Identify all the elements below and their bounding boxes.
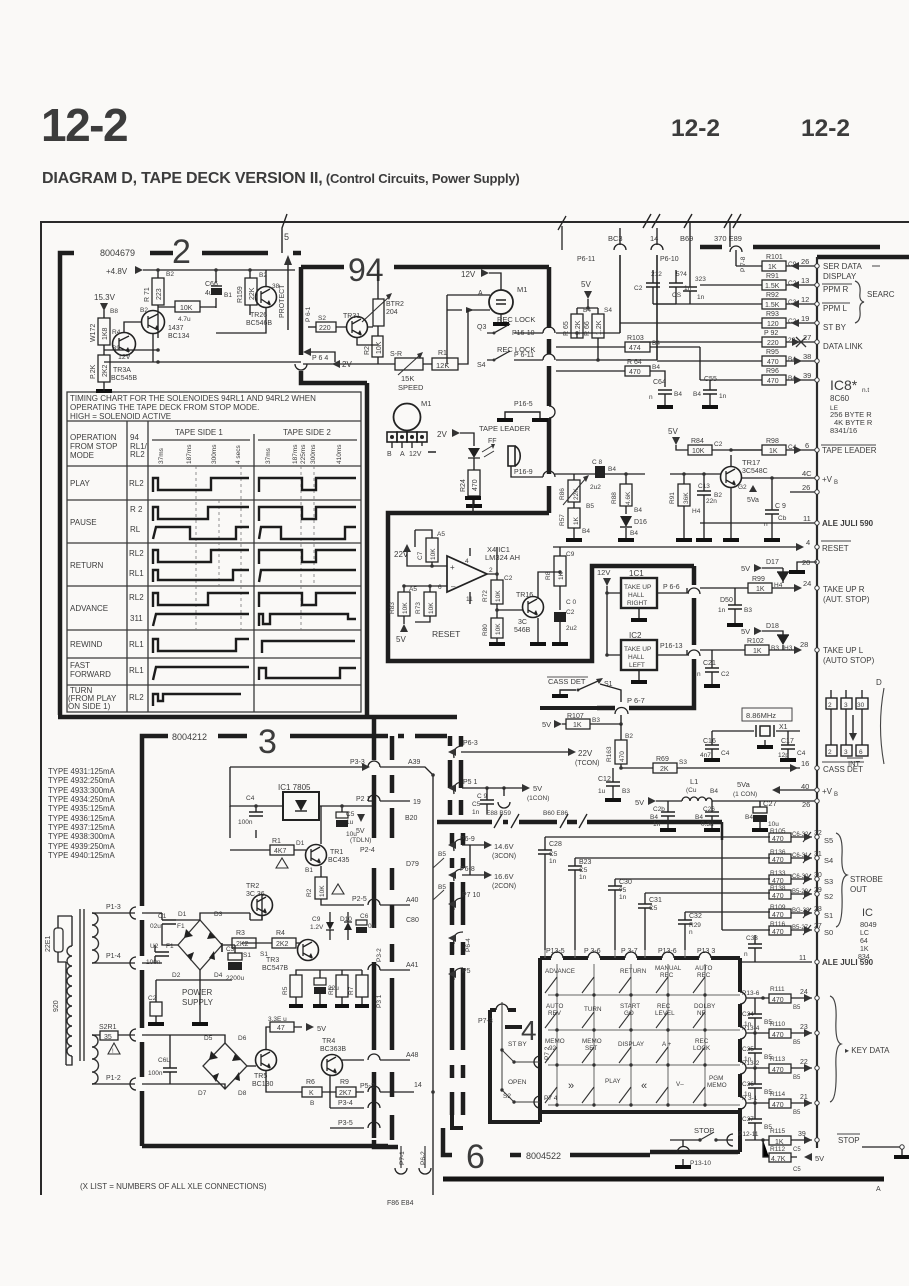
svg-text:FAST: FAST — [70, 661, 90, 670]
svg-text:MEMO: MEMO — [545, 1038, 565, 1045]
svg-text:P13-10: P13-10 — [690, 1160, 711, 1167]
key labels row0 — [545, 965, 727, 1089]
svg-text:410ms: 410ms — [336, 444, 343, 464]
svg-text:16.6V: 16.6V — [494, 872, 514, 881]
ground above op-amp — [472, 500, 474, 513]
svg-text:ALE JULI 590: ALE JULI 590 — [822, 958, 874, 967]
svg-text:1437: 1437 — [168, 325, 184, 332]
svg-text:S1: S1 — [824, 911, 833, 920]
svg-text:S4: S4 — [824, 856, 833, 865]
svg-text:TYPE 4934:250mA: TYPE 4934:250mA — [48, 795, 116, 804]
svg-text:D3: D3 — [214, 911, 223, 918]
svg-text:R116: R116 — [770, 921, 785, 928]
bus pair B (thick dashed verticals) — [450, 736, 463, 1128]
svg-text:TYPE 4932:250mA: TYPE 4932:250mA — [48, 776, 116, 785]
svg-text:P7-1: P7-1 — [399, 1151, 406, 1165]
svg-text:B4: B4 — [630, 530, 638, 537]
svg-text:2: 2 — [172, 233, 191, 271]
slashes across strobe arrows — [803, 832, 811, 935]
svg-text:B3: B3 — [592, 717, 600, 724]
svg-text:R103: R103 — [627, 335, 644, 342]
svg-text:S5: S5 — [824, 836, 833, 845]
svg-text:8004212: 8004212 — [172, 732, 207, 742]
waveform FAST FORWARD side1 — [153, 667, 249, 680]
5V TDLN down arrow — [357, 814, 365, 822]
svg-text:6: 6 — [859, 749, 863, 756]
svg-text:PPM R: PPM R — [823, 285, 849, 294]
svg-text:11: 11 — [799, 955, 806, 962]
svg-text:1K: 1K — [775, 1139, 784, 1146]
svg-text:C66: C66 — [205, 281, 218, 288]
arcs on matrix top — [551, 952, 711, 958]
svg-text:TYPE 4936:125mA: TYPE 4936:125mA — [48, 814, 116, 823]
connector wires — [831, 690, 862, 745]
svg-text:39: 39 — [798, 1131, 806, 1138]
svg-text:B20: B20 — [405, 815, 418, 822]
svg-text:IC1 7805: IC1 7805 — [278, 783, 311, 792]
svg-text:TR1: TR1 — [330, 849, 343, 856]
svg-text:R91: R91 — [766, 273, 779, 280]
svg-text:TAKE UP L: TAKE UP L — [823, 646, 864, 655]
ground below R57 — [566, 538, 582, 542]
svg-text:PAUSE: PAUSE — [70, 518, 97, 527]
waveform FAST FORWARD side2 — [259, 668, 356, 680]
svg-text:B4: B4 — [634, 507, 642, 514]
svg-text:A5: A5 — [409, 586, 417, 593]
svg-text:3: 3 — [844, 749, 848, 756]
waveform PAUSE RL1 side1 — [153, 527, 249, 539]
waveform ADVANCE RL2 side1 — [153, 593, 249, 607]
svg-text:470: 470 — [772, 836, 784, 843]
svg-text:12: 12 — [801, 295, 809, 304]
ground below TR16 — [530, 642, 546, 646]
svg-text:P3-4: P3-4 — [338, 1100, 353, 1107]
svg-text:B4: B4 — [695, 814, 703, 821]
svg-text:W172: W172 — [90, 324, 97, 342]
svg-text:RETURN: RETURN — [620, 968, 647, 975]
svg-text:R24: R24 — [460, 479, 467, 492]
resistor R102 1K — [745, 645, 769, 655]
table header text — [70, 394, 331, 460]
svg-text:(AUT. STOP): (AUT. STOP) — [823, 595, 870, 604]
svg-text:C5: C5 — [649, 905, 658, 912]
svg-text:2V: 2V — [437, 430, 447, 439]
svg-text:2V: 2V — [342, 360, 352, 369]
svg-text:37ms: 37ms — [265, 447, 272, 464]
svg-text:1K: 1K — [769, 448, 778, 455]
svg-text:12V: 12V — [461, 270, 476, 279]
thick top bars right section — [700, 247, 909, 257]
svg-text:2u2: 2u2 — [590, 484, 601, 491]
svg-text:S3: S3 — [824, 877, 833, 886]
svg-text:P7 10: P7 10 — [462, 892, 480, 899]
matrix column wires — [545, 950, 705, 1105]
svg-text:1u: 1u — [598, 788, 606, 795]
electrolytic C9 22u — [314, 978, 326, 985]
resistor R9 2K7 — [336, 1087, 356, 1097]
svg-text:S2: S2 — [503, 1093, 511, 1100]
svg-text:ALE JULI 590: ALE JULI 590 — [822, 519, 874, 528]
svg-text:TYPE 4933:300mA: TYPE 4933:300mA — [48, 786, 116, 795]
resistor 10K horizontal — [175, 301, 200, 312]
svg-text:R138: R138 — [770, 885, 786, 892]
RESET wire to bus — [553, 546, 802, 548]
svg-text:IC2: IC2 — [629, 631, 642, 640]
svg-text:R29: R29 — [689, 922, 701, 929]
svg-text:n: n — [764, 521, 768, 528]
svg-text:1n: 1n — [653, 821, 661, 828]
svg-text:HALL: HALL — [628, 654, 645, 661]
svg-text:TR3: TR3 — [266, 957, 279, 964]
svg-text:TAPE LEADER: TAPE LEADER — [822, 446, 877, 455]
svg-text:470: 470 — [772, 1102, 784, 1109]
svg-text:5?4: 5?4 — [676, 271, 687, 278]
svg-text:220: 220 — [319, 325, 331, 332]
arc crossings on section94 left edge — [295, 364, 307, 370]
resistor R71 — [152, 278, 164, 305]
svg-text:13: 13 — [801, 276, 809, 285]
svg-text:PGM: PGM — [709, 1075, 723, 1082]
section 2 border (thick) — [58, 253, 457, 717]
svg-text:TR26: TR26 — [250, 312, 267, 319]
svg-text:8341/16: 8341/16 — [830, 426, 857, 435]
svg-text:H3: H3 — [784, 645, 793, 652]
svg-text:300ms: 300ms — [310, 444, 317, 464]
svg-text:S2: S2 — [318, 315, 326, 322]
svg-text:19: 19 — [413, 799, 421, 806]
resistor R3 2K2 — [232, 938, 256, 948]
waveform PLAY RL2 side2 — [259, 478, 356, 492]
svg-text:P6-4: P6-4 — [465, 938, 472, 952]
svg-text:B1: B1 — [305, 867, 313, 874]
bus pair A (thick dashed verticals) — [374, 717, 398, 1147]
svg-text:R 71: R 71 — [144, 287, 151, 302]
svg-text:(1 CON): (1 CON) — [733, 791, 757, 798]
svg-text:(2CON): (2CON) — [492, 883, 516, 890]
resistor R66 — [592, 314, 604, 338]
svg-text:6: 6 — [438, 584, 442, 591]
svg-text:C3: C3 — [226, 946, 235, 953]
svg-text:STOP: STOP — [838, 1136, 860, 1145]
svg-text:R57: R57 — [559, 514, 566, 526]
svg-text:470: 470 — [772, 857, 784, 864]
P2-5 / A40 row — [321, 899, 410, 905]
svg-text:C 8: C 8 — [592, 459, 603, 466]
svg-text:1C1: 1C1 — [629, 569, 644, 578]
section 3 border (thick) — [142, 736, 447, 1146]
svg-text:15K: 15K — [401, 374, 414, 383]
svg-text:R6: R6 — [328, 986, 335, 995]
svg-text:S2R1: S2R1 — [99, 1024, 117, 1031]
svg-text:D8: D8 — [238, 1090, 247, 1097]
svg-text:120: 120 — [767, 321, 779, 328]
svg-text:470: 470 — [772, 878, 784, 885]
wires bridge to TR3 row — [200, 894, 300, 980]
svg-text:10K: 10K — [430, 548, 437, 560]
svg-text:R 66: R 66 — [584, 321, 591, 336]
svg-text:187ms: 187ms — [186, 444, 193, 464]
P3-4 P3-5 rows — [330, 1075, 364, 1128]
tape leader signal wire to TR17 — [555, 450, 817, 538]
ground below motor M1 — [500, 314, 502, 323]
svg-text:4C: 4C — [802, 469, 812, 478]
svg-text:P 6 4: P 6 4 — [312, 355, 328, 362]
svg-text:100n: 100n — [238, 819, 253, 826]
svg-text:D50: D50 — [720, 597, 733, 604]
svg-text:R1: R1 — [272, 838, 281, 845]
svg-text:F1: F1 — [166, 943, 174, 950]
ground below C13 — [696, 538, 712, 542]
crystal X1 8.86MHz — [742, 708, 792, 721]
svg-text:BC545B: BC545B — [111, 375, 137, 382]
motor M1 (upper) — [489, 290, 513, 314]
svg-text:DOLBY: DOLBY — [694, 1003, 716, 1010]
R103 474 box — [556, 347, 700, 380]
svg-text:MEMO: MEMO — [582, 1038, 602, 1045]
svg-text:P 6-1: P 6-1 — [305, 306, 312, 322]
svg-text:A40: A40 — [406, 897, 419, 904]
svg-text:C32: C32 — [689, 913, 702, 920]
waveform TURN side1 — [153, 694, 241, 706]
svg-text:R9: R9 — [340, 1079, 349, 1086]
svg-text:R136: R136 — [770, 849, 786, 856]
svg-text:D1: D1 — [178, 911, 187, 918]
svg-text:B4: B4 — [710, 788, 718, 795]
svg-text:P6-11: P6-11 — [577, 256, 595, 263]
svg-text:R 64: R 64 — [627, 359, 642, 366]
svg-text:1.5K: 1.5K — [765, 302, 780, 309]
svg-text:5V: 5V — [815, 1154, 824, 1163]
svg-text:C33: C33 — [746, 935, 758, 942]
svg-text:RL: RL — [130, 525, 141, 534]
svg-text:D79: D79 — [406, 861, 419, 868]
wire +4.8V rail — [104, 270, 301, 388]
svg-text:R163: R163 — [606, 746, 613, 762]
transistor TR27 — [142, 311, 165, 334]
svg-text:BC363B: BC363B — [320, 1046, 346, 1053]
svg-text:D18: D18 — [766, 623, 779, 630]
svg-text:R110: R110 — [770, 1021, 785, 1028]
key switches row1 — [545, 977, 705, 1103]
svg-text:100n: 100n — [148, 1070, 163, 1077]
svg-text:26: 26 — [801, 257, 809, 266]
svg-text:10K: 10K — [402, 602, 409, 614]
svg-text:–: – — [451, 582, 456, 591]
svg-text:R98: R98 — [766, 438, 779, 445]
svg-text:REV: REV — [548, 1010, 562, 1017]
section 6 boundary with numeral and code — [443, 1128, 738, 1155]
svg-text:C13: C13 — [698, 483, 710, 490]
svg-text:B: B — [387, 451, 392, 458]
svg-text:(AUTO STOP): (AUTO STOP) — [823, 656, 875, 665]
resistor R96 470 — [700, 379, 817, 381]
svg-text:B4: B4 — [745, 814, 753, 821]
svg-text:LEFT: LEFT — [629, 662, 645, 669]
wires op-amp inputs — [404, 530, 447, 624]
ground below R80 — [489, 642, 505, 646]
svg-text:MANUAL: MANUAL — [655, 965, 682, 972]
svg-text:470: 470 — [772, 912, 784, 919]
resistor R91 36K — [678, 484, 690, 506]
svg-text:X1: X1 — [779, 724, 788, 731]
resistor 220 at left of TR31 — [316, 322, 336, 332]
svg-text:5: 5 — [284, 232, 289, 242]
resistor R93 120 — [620, 322, 817, 324]
ground below C10 — [552, 642, 568, 646]
svg-text:C5: C5 — [793, 1147, 801, 1153]
svg-text:A +: A + — [662, 1041, 672, 1048]
svg-text:R112: R112 — [770, 1146, 785, 1153]
svg-text:B4: B4 — [693, 391, 701, 398]
svg-text:TYPE 4940:125mA: TYPE 4940:125mA — [48, 851, 116, 860]
svg-text:02u: 02u — [150, 923, 161, 930]
table row labels — [68, 479, 144, 711]
5V 1CON arrow — [522, 784, 530, 792]
svg-text:470: 470 — [772, 929, 784, 936]
PROTECT vertical wire with arrow — [287, 262, 289, 330]
svg-text:5Va: 5Va — [747, 497, 759, 504]
svg-text:B8: B8 — [110, 308, 118, 315]
svg-text:1n: 1n — [719, 393, 727, 400]
secondary winding 2 — [92, 1035, 99, 1084]
svg-text:R111: R111 — [770, 986, 785, 993]
svg-text:P1-3: P1-3 — [106, 904, 121, 911]
5V arrow right — [306, 1023, 314, 1031]
svg-text:A48: A48 — [406, 1052, 419, 1059]
resistor 2.2K — [98, 355, 110, 382]
svg-text:ON SIDE 1): ON SIDE 1) — [68, 702, 111, 711]
svg-text:22K: 22K — [573, 488, 580, 500]
svg-text:C2: C2 — [714, 441, 723, 448]
svg-text:B: B — [310, 1100, 314, 1107]
ground below IC2 — [638, 670, 640, 680]
svg-text:P1-4: P1-4 — [106, 953, 121, 960]
resistor R1 4K7 and TR1 — [230, 806, 321, 877]
lower bridge rectifier D5-D8 — [203, 1043, 247, 1089]
svg-text:B3: B3 — [744, 607, 752, 614]
svg-text:R86: R86 — [559, 488, 566, 500]
connector block under motor — [387, 432, 427, 442]
svg-text:(TDLN): (TDLN) — [350, 837, 371, 844]
waveform PAUSE RL1 side2 — [259, 527, 356, 539]
svg-text:0.3u: 0.3u — [701, 821, 714, 828]
svg-text:5V: 5V — [533, 784, 542, 793]
svg-text:5V: 5V — [396, 635, 406, 644]
svg-text:TYPE 4935:125mA: TYPE 4935:125mA — [48, 804, 116, 813]
svg-text:«: « — [641, 1080, 647, 1092]
svg-text:10K: 10K — [180, 305, 193, 312]
svg-text:15.3V: 15.3V — [94, 293, 116, 302]
svg-text:BTR2: BTR2 — [386, 301, 404, 308]
svg-text:6: 6 — [466, 1138, 485, 1176]
svg-text:C30: C30 — [619, 879, 632, 886]
svg-text:204: 204 — [386, 309, 398, 316]
svg-text:n: n — [744, 951, 748, 958]
vertical wire 14 with P6-10 arc — [651, 228, 663, 360]
waveform REWIND RL1 side2 — [262, 641, 355, 653]
speed pot S-R 15K — [395, 358, 423, 370]
svg-text:+: + — [450, 563, 455, 572]
svg-text:n.t: n.t — [862, 387, 869, 394]
svg-text:12V: 12V — [409, 451, 422, 458]
svg-text:D: D — [876, 678, 882, 687]
top border wire slashes — [643, 214, 741, 228]
svg-text:MODE: MODE — [70, 451, 94, 460]
resistor R98 1K — [762, 445, 786, 455]
svg-text:P16-10: P16-10 — [512, 330, 535, 337]
transistor TR26 — [256, 287, 277, 308]
P7-8 crossing arc — [730, 246, 742, 252]
svg-text:B4: B4 — [652, 364, 660, 371]
A48 row — [342, 1059, 410, 1061]
22V TCON feed — [461, 751, 568, 753]
transistor TR5 — [256, 1050, 277, 1071]
svg-text:(3CON): (3CON) — [492, 853, 516, 860]
svg-text:R69: R69 — [656, 756, 669, 763]
svg-text:3C548C: 3C548C — [742, 468, 768, 475]
svg-text:D16: D16 — [634, 519, 647, 526]
R69 2K cassette detect row — [621, 767, 800, 769]
svg-text:2: 2 — [828, 749, 832, 756]
svg-text:1K: 1K — [768, 264, 777, 271]
transistor TR3A — [113, 333, 136, 356]
svg-text:K: K — [309, 1090, 314, 1097]
fuse 22E1 — [54, 928, 63, 952]
resistor R112 4.7K — [763, 1140, 797, 1157]
svg-text:D6: D6 — [238, 1035, 247, 1042]
svg-text:1K: 1K — [753, 648, 762, 655]
svg-text:223: 223 — [156, 288, 163, 300]
svg-text:21: 21 — [800, 1094, 808, 1101]
svg-text:REC: REC — [695, 1038, 709, 1045]
STROBE OUT brace — [836, 833, 847, 927]
svg-text:BC130: BC130 — [252, 1081, 274, 1088]
svg-text:D2: D2 — [172, 972, 181, 979]
svg-text:12V: 12V — [118, 354, 131, 361]
svg-text:10K: 10K — [376, 341, 383, 354]
svg-text:C4: C4 — [246, 795, 255, 802]
svg-text:DISPLAY: DISPLAY — [618, 1041, 645, 1048]
svg-text:10K: 10K — [428, 602, 435, 614]
svg-text:B23: B23 — [579, 859, 592, 866]
svg-text:SUPPLY: SUPPLY — [182, 998, 214, 1007]
svg-text:BC134: BC134 — [168, 333, 190, 340]
svg-text:ST BY: ST BY — [508, 1041, 527, 1048]
resistor R92 1.5K — [653, 303, 817, 305]
svg-text:TAKE UP R: TAKE UP R — [823, 585, 865, 594]
svg-text:C9: C9 — [312, 916, 321, 923]
middle thick box around op-amp / reset — [388, 513, 694, 708]
resistor R8 1K vertical — [554, 556, 566, 586]
svg-text:B60 E86: B60 E86 — [543, 810, 568, 817]
svg-text:38: 38 — [803, 352, 811, 361]
svg-text:P7-3: P7-3 — [478, 1018, 493, 1025]
R104 470 box — [556, 371, 665, 387]
svg-text:R95: R95 — [766, 349, 779, 356]
svg-text:ADVANCE: ADVANCE — [70, 604, 108, 613]
svg-text:23: 23 — [800, 1024, 808, 1031]
slashes across y=822 separator — [494, 814, 587, 828]
svg-text:3: 3 — [258, 723, 277, 761]
svg-text:L1: L1 — [690, 777, 698, 786]
svg-text:C4: C4 — [721, 750, 730, 757]
warning triangle — [108, 1043, 120, 1054]
svg-text:B4: B4 — [650, 814, 658, 821]
svg-text:AUTO: AUTO — [695, 965, 712, 972]
svg-text:P 6-11: P 6-11 — [514, 352, 534, 359]
svg-text:6: 6 — [805, 441, 809, 450]
svg-text:B4: B4 — [582, 528, 590, 535]
